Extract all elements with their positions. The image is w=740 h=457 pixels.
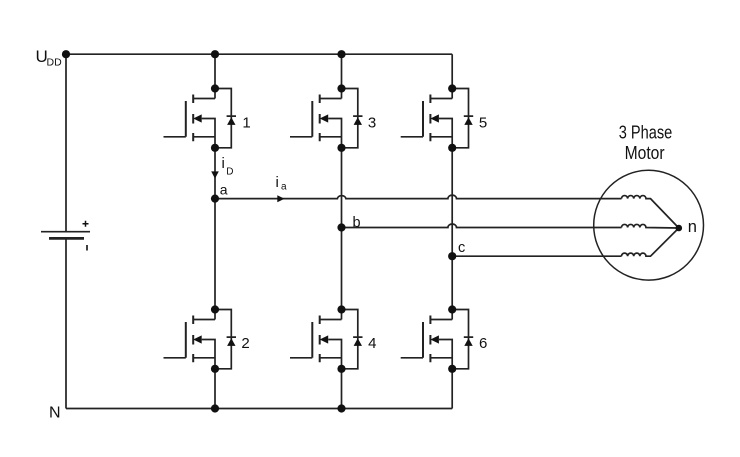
svg-text:5: 5 [479,114,487,131]
svg-text:a: a [281,182,287,193]
svg-text:N: N [49,405,61,422]
svg-text:3 Phase: 3 Phase [619,123,673,143]
svg-text:b: b [353,215,361,231]
svg-text:2: 2 [241,335,249,352]
svg-text:i: i [222,155,225,172]
svg-text:n: n [688,218,697,236]
svg-text:4: 4 [368,335,376,352]
svg-text:a: a [220,182,228,198]
svg-text:c: c [458,240,465,256]
svg-text:6: 6 [479,335,487,352]
svg-text:1: 1 [242,114,250,131]
svg-text:i: i [276,174,279,191]
svg-text:D: D [226,167,233,178]
svg-text:DD: DD [47,57,63,69]
svg-text:3: 3 [368,114,376,131]
svg-text:Motor: Motor [625,143,665,163]
